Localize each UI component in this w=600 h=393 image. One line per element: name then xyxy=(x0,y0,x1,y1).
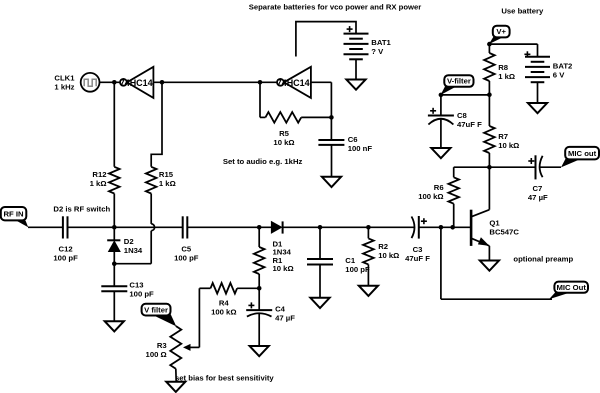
label BAT2 plus xyxy=(524,53,530,55)
wire collector up xyxy=(488,167,490,210)
resistor R8 xyxy=(488,44,490,53)
label C3 plus xyxy=(421,220,427,222)
svg-text:C5: C5 xyxy=(181,244,192,253)
svg-text:100 pF: 100 pF xyxy=(345,265,370,274)
transistor Q1 xyxy=(470,210,473,246)
svg-text:Separate batteries for vco pow: Separate batteries for vco power and RX … xyxy=(249,3,422,12)
resistor R15 xyxy=(146,167,157,194)
svg-text:D2 is RF switch: D2 is RF switch xyxy=(53,204,110,213)
node V+ junction xyxy=(487,42,492,47)
svg-text:BAT1: BAT1 xyxy=(371,38,391,47)
svg-text:V+: V+ xyxy=(496,27,506,36)
svg-text:100 Ω: 100 Ω xyxy=(146,350,167,359)
node MIC wire junction xyxy=(439,225,444,230)
node C1 junction xyxy=(318,225,323,230)
node D2 top junction xyxy=(112,225,117,230)
wire V+ to BAT2 xyxy=(489,43,537,45)
svg-text:Use battery: Use battery xyxy=(501,7,544,16)
svg-text:100 pF: 100 pF xyxy=(53,253,78,262)
wire U2 input down to R5/C6 node xyxy=(330,82,332,117)
svg-text:100 nF: 100 nF xyxy=(348,144,373,153)
wiper arrow R3 xyxy=(183,344,191,351)
diode D1 xyxy=(271,222,281,233)
node U2 output junction xyxy=(258,80,263,85)
svg-text:1 kHz: 1 kHz xyxy=(54,82,74,91)
svg-text:1 kΩ: 1 kΩ xyxy=(159,179,176,188)
resistor R12 xyxy=(113,82,115,167)
svg-text:Q1: Q1 xyxy=(489,219,500,228)
svg-text:47 µF: 47 µF xyxy=(528,193,548,202)
node R1/R4/C4 junction xyxy=(257,286,262,291)
svg-text:47 µF: 47 µF xyxy=(275,314,295,323)
diode D2 xyxy=(113,227,115,240)
svg-text:R3: R3 xyxy=(157,341,167,350)
wire V-filter to R8 bottom xyxy=(441,94,490,96)
resistor R5 xyxy=(260,116,265,118)
capacitor C6 xyxy=(330,117,332,140)
wire RF IN to C12 xyxy=(28,226,63,228)
svg-text:R6: R6 xyxy=(434,183,444,192)
svg-text:set bias for best sensitivity: set bias for best sensitivity xyxy=(175,374,274,383)
label C8 plus xyxy=(430,110,436,112)
svg-text:100 pF: 100 pF xyxy=(174,253,199,262)
svg-text:C6: C6 xyxy=(348,135,358,144)
ground R3 xyxy=(166,382,185,392)
svg-text:C3: C3 xyxy=(413,245,423,254)
wire C5 to D1 xyxy=(187,226,271,228)
ground C13 xyxy=(113,291,115,321)
svg-text:C13: C13 xyxy=(129,280,143,289)
svg-text:10 kΩ: 10 kΩ xyxy=(378,251,399,260)
svg-text:47uF F: 47uF F xyxy=(405,254,430,263)
resistor R4 xyxy=(199,287,210,289)
capacitor C12 xyxy=(62,216,64,238)
svg-text:CLK1: CLK1 xyxy=(54,73,75,82)
label C4 plus xyxy=(248,304,254,306)
resistor R6 xyxy=(453,167,455,177)
ground C1 xyxy=(319,265,321,298)
node D1 anode junction xyxy=(257,225,262,230)
capacitor C13 xyxy=(113,264,115,287)
svg-text:? V: ? V xyxy=(371,47,384,56)
wire U2 input lead xyxy=(311,81,332,83)
svg-text:Set to audio e.g. 1kHz: Set to audio e.g. 1kHz xyxy=(223,157,303,166)
label C7 plus xyxy=(528,160,534,162)
svg-text:1N34: 1N34 xyxy=(124,246,143,255)
svg-text:BC547C: BC547C xyxy=(489,228,519,237)
ground C6 xyxy=(331,145,333,177)
wire emitter down xyxy=(488,246,490,261)
svg-text:C1: C1 xyxy=(345,256,356,265)
ground Q1 emitter xyxy=(480,261,499,271)
battery BAT1 xyxy=(344,33,369,35)
capacitor C4 xyxy=(258,288,260,310)
ground C4 xyxy=(250,346,269,356)
wire CLK1 to U1 xyxy=(100,81,121,83)
node R6 bottom junction xyxy=(450,225,455,230)
capacitor C5 xyxy=(182,216,184,238)
node V-filter junction xyxy=(439,93,444,98)
flag V-filter xyxy=(441,86,457,96)
svg-text:R4: R4 xyxy=(219,299,230,308)
wire U2 power stub to BAT1 xyxy=(296,22,356,57)
node collector junction xyxy=(487,165,492,170)
wire D1 to C1 xyxy=(283,226,415,228)
ground R2 xyxy=(359,286,378,296)
node D2 anode junction xyxy=(112,261,117,266)
node R8/R7/V-filter junction xyxy=(487,92,492,97)
wire C12 to C5 xyxy=(68,226,183,228)
flag V+ xyxy=(489,36,503,44)
ground C8 xyxy=(431,148,450,158)
svg-text:R8: R8 xyxy=(498,63,509,72)
svg-text:R15: R15 xyxy=(159,170,174,179)
wire R6 top to collector node xyxy=(454,166,490,168)
capacitor C8 xyxy=(440,95,442,116)
svg-text:R2: R2 xyxy=(378,242,388,251)
node U1 input junction xyxy=(160,80,165,85)
svg-text:RF IN: RF IN xyxy=(4,209,25,218)
svg-text:C7: C7 xyxy=(533,184,543,193)
svg-text:1 kΩ: 1 kΩ xyxy=(90,179,107,188)
svg-text:R12: R12 xyxy=(92,170,106,179)
flag RF IN xyxy=(15,220,29,228)
svg-text:BAT2: BAT2 xyxy=(553,62,573,71)
capacitor C3 xyxy=(412,217,415,239)
inverter U1 74HC14 xyxy=(127,67,153,98)
svg-text:MIC Out: MIC Out xyxy=(556,283,586,292)
svg-text:6 V: 6 V xyxy=(553,71,565,80)
resistor R1 xyxy=(258,227,260,247)
resistor R2 xyxy=(367,227,369,238)
svg-text:V-filter: V-filter xyxy=(447,77,471,86)
svg-text:D2: D2 xyxy=(124,237,134,246)
svg-text:10 kΩ: 10 kΩ xyxy=(273,138,294,147)
node R2 junction xyxy=(366,225,371,230)
svg-text:MIC out: MIC out xyxy=(568,149,597,158)
capacitor C7 xyxy=(489,166,535,168)
svg-text:74HC14: 74HC14 xyxy=(277,78,310,88)
wire R5 left to U2 output xyxy=(259,82,261,117)
svg-text:47uF F: 47uF F xyxy=(457,120,482,129)
wire wiper to R4 xyxy=(198,288,200,347)
node R5/C6/U2-input junction xyxy=(329,115,334,120)
svg-text:V filter: V filter xyxy=(144,305,168,314)
svg-text:100 pF: 100 pF xyxy=(129,289,154,298)
svg-text:optional preamp: optional preamp xyxy=(513,254,573,263)
svg-text:C4: C4 xyxy=(275,305,286,314)
resistor R7 xyxy=(488,95,490,126)
wire MIC down xyxy=(440,227,442,299)
flag MIC Out xyxy=(549,292,570,300)
node CLK1/U1/R12 junction xyxy=(112,80,117,85)
label BAT1 plus xyxy=(347,28,353,30)
svg-text:C8: C8 xyxy=(457,111,468,120)
svg-text:100 kΩ: 100 kΩ xyxy=(418,192,443,201)
ground BAT1 xyxy=(355,59,357,79)
clock source CLK1 xyxy=(81,73,100,92)
svg-text:1 kΩ: 1 kΩ xyxy=(498,72,515,81)
wire U1 input to U2 output xyxy=(153,81,277,83)
svg-text:R7: R7 xyxy=(498,132,508,141)
svg-text:74HC14: 74HC14 xyxy=(120,78,153,88)
wire R15 hop over rail xyxy=(151,224,154,231)
inverter U2 74HC14 xyxy=(284,67,311,98)
svg-text:10 kΩ: 10 kΩ xyxy=(498,141,519,150)
potentiometer R3 xyxy=(170,326,181,369)
wire U1-input jog down to R15 xyxy=(151,82,162,167)
flag V filter xyxy=(152,313,176,327)
svg-text:10 kΩ: 10 kΩ xyxy=(273,264,294,273)
flag MIC out xyxy=(561,158,580,168)
svg-text:C12: C12 xyxy=(59,244,73,253)
wire D2 anode to R15 xyxy=(114,263,151,265)
battery BAT2 xyxy=(537,44,539,57)
wire MIC bottom xyxy=(441,298,552,300)
svg-text:R5: R5 xyxy=(279,129,290,138)
ground BAT2 xyxy=(537,82,539,103)
svg-text:100 kΩ: 100 kΩ xyxy=(211,308,236,317)
wire C3 to Q1 base xyxy=(419,226,471,228)
capacitor C1 xyxy=(319,227,321,259)
